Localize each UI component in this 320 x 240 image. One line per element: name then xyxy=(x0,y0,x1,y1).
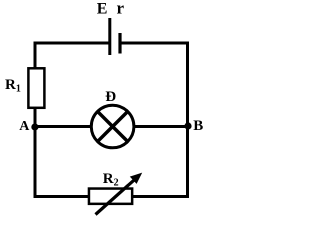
node B xyxy=(184,122,191,129)
wire middle A to B xyxy=(35,125,188,128)
svg-text:B: B xyxy=(193,118,203,134)
rheostat R2 xyxy=(89,173,142,215)
wire left vertical xyxy=(34,42,37,199)
battery E r xyxy=(110,18,120,55)
svg-text:Đ: Đ xyxy=(105,89,116,105)
svg-text:r: r xyxy=(117,0,125,17)
svg-text:E: E xyxy=(97,0,108,17)
wire bottom segment xyxy=(34,195,190,198)
wire right vertical xyxy=(186,42,189,199)
wire top-left segment xyxy=(34,42,109,45)
wire top-right segment xyxy=(120,42,189,45)
lamp D xyxy=(91,105,134,148)
svg-text:A: A xyxy=(19,119,30,134)
node A xyxy=(31,123,38,130)
resistor R1 xyxy=(28,68,44,108)
